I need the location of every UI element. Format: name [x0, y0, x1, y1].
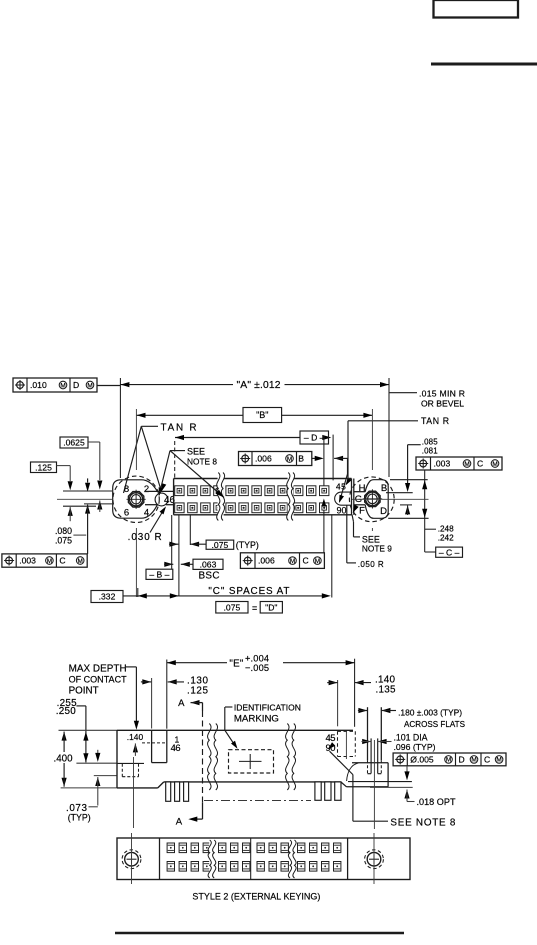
style 2 contacts	[167, 843, 174, 853]
feature control frame FCF1 position .010 M D M	[13, 378, 97, 392]
svg-text:OF CONTACT: OF CONTACT	[69, 674, 127, 684]
left extension lines and small dims	[63, 490, 112, 492]
right ear tangent dashed circle	[349, 477, 394, 522]
svg-text:– C –: – C –	[439, 547, 460, 557]
side view break lines	[208, 724, 211, 791]
svg-text:.400: .400	[54, 753, 74, 764]
identification marking dashed box	[229, 750, 274, 773]
left jackpost centerline	[133, 757, 135, 828]
left jackpost hex	[128, 492, 143, 507]
svg-text:M: M	[446, 757, 451, 764]
left contact cavity	[151, 730, 153, 762]
right jackpost hex	[365, 491, 380, 506]
svg-text:.081: .081	[422, 446, 439, 455]
svg-text:M: M	[464, 461, 469, 468]
svg-text:.085: .085	[422, 437, 439, 446]
feature control frame FCF3 position .003 M C M	[416, 457, 502, 470]
feature control frame FCF5 position .006 M C M	[240, 553, 324, 569]
svg-text:OR BEVEL: OR BEVEL	[421, 398, 464, 408]
note SEE NOTE 9 leader	[353, 505, 359, 513]
datum B flag	[146, 569, 173, 579]
dimension "A" +/-.012 overall length	[119, 378, 121, 478]
svg-text:D: D	[73, 380, 79, 390]
left web edges	[145, 490, 174, 492]
svg-text:(TYP): (TYP)	[236, 540, 259, 550]
dimension .018 OPT	[406, 766, 408, 772]
feature control frame FCF4 dia .005 M D M C M	[393, 753, 506, 766]
svg-text:.006: .006	[258, 556, 275, 566]
dimension .130/.125 cavity width	[151, 678, 153, 729]
svg-text:.180 ±.003 (TYP): .180 ±.003 (TYP)	[398, 707, 462, 717]
right flange extension lines	[390, 479, 428, 481]
dim .332 and C spaces at .075 = D	[91, 591, 123, 603]
footer rule	[115, 932, 404, 935]
right jackpost side view	[367, 707, 369, 760]
svg-text:8: 8	[124, 484, 129, 495]
svg-text:.248: .248	[438, 524, 454, 533]
svg-text:M: M	[315, 558, 320, 565]
svg-text:C: C	[484, 755, 490, 765]
extension lines below insert	[171, 515, 173, 569]
svg-text:"C" SPACES AT: "C" SPACES AT	[208, 586, 289, 597]
dimension .140/.135 contact location	[337, 680, 339, 726]
svg-text:M: M	[47, 558, 52, 565]
svg-text:.125: .125	[187, 685, 209, 696]
left mounting ear outline	[113, 480, 158, 518]
svg-text:"E": "E"	[229, 658, 244, 669]
leader to keying slot	[334, 456, 343, 461]
svg-text:BSC: BSC	[199, 571, 220, 582]
svg-text:"A" ±.012: "A" ±.012	[237, 380, 281, 391]
svg-text:.075: .075	[212, 540, 229, 550]
dim .080/.075 and FCF left leader	[87, 478, 89, 482]
right end lower profile	[341, 782, 347, 787]
svg-text:NOTE 9: NOTE 9	[362, 544, 392, 554]
svg-text:STYLE 2 (EXTERNAL KEYING): STYLE 2 (EXTERNAL KEYING)	[192, 892, 320, 902]
note SEE NOTE 8 leader side view	[328, 742, 336, 749]
left jackpost hidden hole	[121, 764, 123, 777]
svg-text:.101 DIA: .101 DIA	[394, 733, 428, 743]
note TAN R right leader	[348, 420, 418, 422]
note .015 MIN R OR BEVEL	[389, 392, 417, 394]
svg-text:M: M	[290, 558, 295, 565]
svg-text:M: M	[492, 461, 497, 468]
contact squares	[175, 486, 184, 496]
left extension lines side view	[76, 762, 117, 764]
svg-text:MAX DEPTH: MAX DEPTH	[69, 663, 127, 674]
svg-text:−.005: −.005	[245, 663, 269, 673]
svg-text:45: 45	[336, 482, 346, 492]
svg-text:Ø.005: Ø.005	[410, 755, 434, 765]
svg-text:(TYP): (TYP)	[68, 813, 91, 823]
dimension .101/.096 hole dia	[362, 739, 371, 744]
svg-text:.006: .006	[255, 454, 272, 464]
svg-text:.003: .003	[434, 459, 451, 469]
leader to contact break	[170, 451, 224, 498]
svg-text:4: 4	[144, 507, 149, 518]
feature control frame FCF2 position .006 M B	[239, 452, 312, 466]
centerlines	[57, 498, 112, 500]
svg-text:"B": "B"	[256, 410, 268, 420]
svg-text:– B –: – B –	[149, 570, 169, 580]
svg-text:SEE NOTE 8: SEE NOTE 8	[390, 817, 456, 828]
right web edges	[354, 491, 366, 493]
left ear tangent dashed circle	[113, 476, 159, 522]
svg-text:C: C	[477, 459, 483, 469]
svg-text:.0625: .0625	[63, 438, 85, 448]
dim .063 BSC	[164, 562, 173, 567]
svg-text:C: C	[59, 556, 65, 566]
side view body outline	[59, 729, 118, 731]
svg-text:.030 R: .030 R	[128, 532, 162, 543]
svg-text:IDENTIFICATION: IDENTIFICATION	[234, 702, 301, 712]
right mounting boss block	[352, 762, 388, 764]
right mounting ear outline	[365, 480, 388, 519]
svg-text:M: M	[496, 757, 501, 764]
style 2 right jackpost hole	[367, 852, 381, 866]
svg-text:"D": "D"	[265, 603, 277, 613]
svg-text:M: M	[78, 558, 83, 565]
svg-text:C: C	[303, 556, 309, 566]
svg-text:.003: .003	[19, 556, 36, 566]
contact point dashed line	[142, 742, 167, 744]
svg-text:46: 46	[171, 743, 181, 753]
svg-text:.015 MIN R: .015 MIN R	[419, 388, 465, 398]
svg-text:NOTE 8: NOTE 8	[187, 456, 217, 466]
svg-text:.135: .135	[376, 684, 397, 695]
svg-text:.140: .140	[127, 732, 144, 742]
right solder tails	[315, 782, 321, 800]
svg-text:A: A	[178, 698, 185, 709]
keying slot	[335, 492, 352, 505]
dimension "E" +.004 -.005	[166, 660, 168, 729]
style 2 left jackpost hole	[125, 852, 139, 866]
page header box	[434, 0, 519, 18]
svg-text:+.004: +.004	[245, 654, 269, 664]
dimension D reference	[175, 437, 300, 439]
svg-text:B: B	[298, 454, 304, 464]
right jackpost centerline	[373, 740, 375, 829]
svg-text:.242: .242	[438, 533, 454, 542]
svg-text:.018 OPT: .018 OPT	[417, 797, 456, 807]
dimension .180 across flats	[358, 708, 367, 713]
svg-text:POINT: POINT	[69, 685, 99, 696]
svg-text:.096 (TYP): .096 (TYP)	[394, 742, 436, 752]
left solder tails	[166, 782, 171, 801]
dimension "B" between jackpost centers	[137, 414, 244, 416]
svg-text:.075: .075	[224, 603, 241, 613]
polarizing hole .030R	[155, 493, 168, 506]
svg-text:F: F	[359, 506, 365, 517]
break lines in insert	[218, 473, 224, 521]
svg-text:M: M	[87, 382, 92, 389]
svg-text:D: D	[380, 506, 387, 517]
FCF5 leader to last contact	[323, 510, 325, 553]
style 2 end dividers	[159, 838, 161, 880]
feature control frame FCFL position .003 M C M	[2, 554, 87, 567]
section line A-A	[202, 711, 204, 802]
svg-text:2: 2	[144, 484, 149, 495]
svg-text:.050 R: .050 R	[358, 560, 384, 569]
svg-text:.250: .250	[56, 706, 77, 717]
dim .075 TYP contact spacing	[169, 542, 178, 547]
svg-text:M: M	[60, 382, 65, 389]
section arrow A bottom	[202, 802, 204, 819]
svg-text:SEE: SEE	[187, 446, 205, 456]
dimension .248/.242 flange height with datum C	[424, 470, 426, 552]
note .050 R leader	[346, 506, 348, 563]
svg-text:ACROSS FLATS: ACROSS FLATS	[404, 720, 465, 729]
dim .125 left	[31, 462, 57, 473]
style 2 break lines	[209, 840, 214, 878]
svg-text:.125: .125	[35, 462, 52, 472]
svg-text:.332: .332	[99, 592, 116, 602]
svg-text:MARKING: MARKING	[234, 713, 279, 724]
svg-text:H: H	[359, 483, 366, 494]
svg-text:A: A	[176, 817, 183, 828]
svg-text:M: M	[471, 757, 476, 764]
svg-text:6: 6	[124, 507, 129, 518]
dim .0625 left	[60, 437, 88, 448]
svg-text:=: =	[252, 603, 257, 613]
style 2 body outline	[117, 838, 410, 880]
svg-text:M: M	[287, 456, 292, 463]
svg-text:– D –: – D –	[304, 433, 325, 443]
dimension .073 TYP left	[95, 753, 100, 762]
svg-text:D: D	[459, 755, 465, 765]
header rule	[431, 63, 537, 66]
svg-text:TAN R: TAN R	[421, 416, 449, 426]
svg-text:.010: .010	[30, 380, 47, 390]
svg-text:90: 90	[337, 506, 347, 516]
svg-text:.075: .075	[55, 536, 72, 546]
pcb datum dash-dot line	[204, 799, 311, 801]
insert body outline	[174, 478, 352, 480]
svg-text:.063: .063	[200, 560, 217, 570]
